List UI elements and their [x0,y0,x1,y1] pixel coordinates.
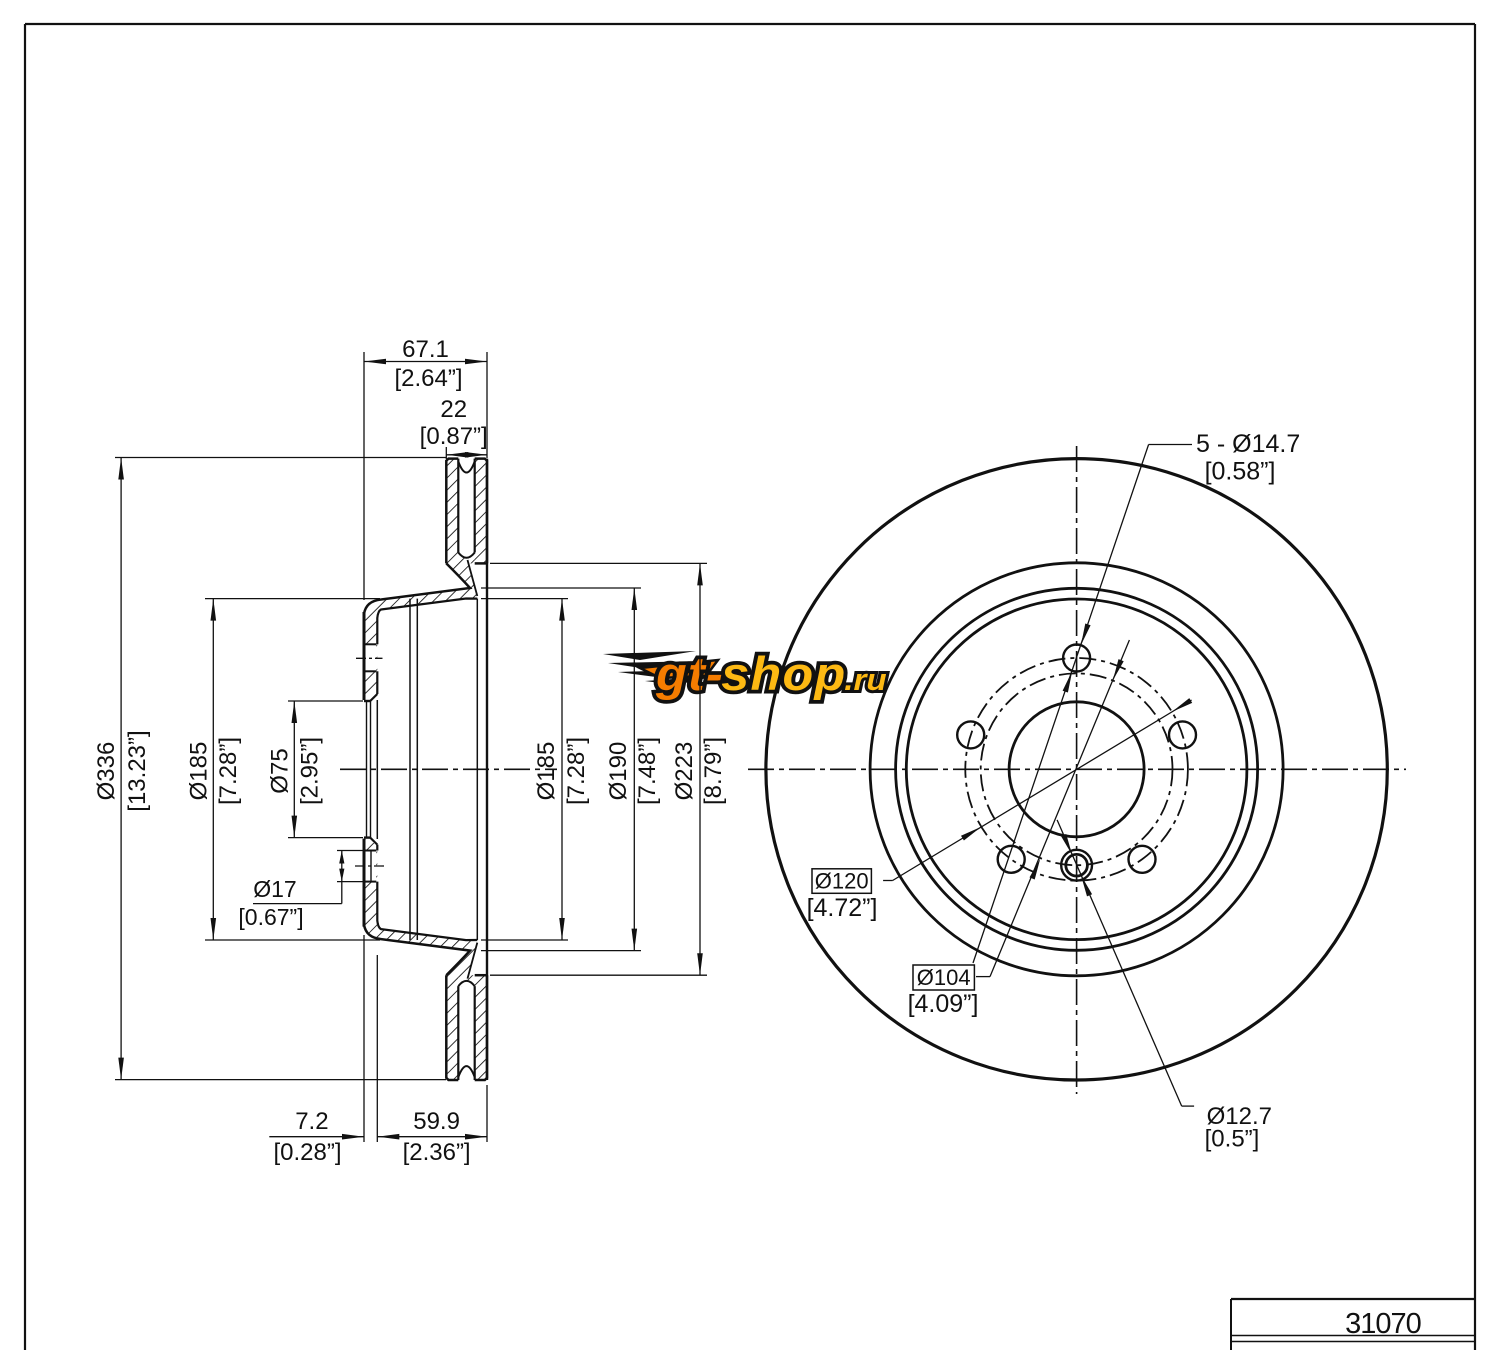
dim D223 [490,562,707,564]
bolt hole window in flange (section) [366,644,377,671]
section outline: lower left plate [446,975,458,1080]
dim D336 [115,457,446,459]
svg-text:Ø223: Ø223 [671,742,698,801]
hat inner circle D185 [906,599,1247,940]
D12.7 dimension line [1057,820,1182,1106]
watermark gt-shop.ru logo [603,648,887,700]
svg-text:[0.5”]: [0.5”] [1205,1126,1260,1153]
hat wall inner line (lower) [377,882,477,941]
dim D75 [288,700,363,702]
bolt hole 5 (D14.7) [957,721,984,748]
title block [1231,1298,1475,1300]
section outline: right plate [475,459,487,564]
D120 boxed label [812,869,871,894]
front view: vertical centerline [1076,446,1078,1094]
flange inner face thin line across bore [376,700,378,839]
svg-text:5 - Ø14.7: 5 - Ø14.7 [1196,430,1300,458]
dim D190 [481,587,641,589]
svg-text:Ø185: Ø185 [186,742,213,801]
svg-text:59.9: 59.9 [413,1108,460,1135]
pot mouth rim circle [476,599,478,940]
svg-text:[4.09”]: [4.09”] [908,990,979,1018]
section horizontal centerline [340,768,557,770]
svg-text:[7.28”]: [7.28”] [215,737,242,805]
svg-text:67.1: 67.1 [402,336,449,363]
svg-text:[0.67”]: [0.67”] [238,904,303,930]
svg-text:Ø190: Ø190 [605,742,632,801]
svg-text:[2.36”]: [2.36”] [403,1139,471,1166]
section outline: left plate [446,459,458,564]
label 5-D14.7 leader [1149,444,1192,446]
D104 dimension line [976,976,990,978]
svg-text:Ø17: Ø17 [253,876,296,902]
lower vane U and slot U [458,1066,474,1077]
section: hatched left plate (outboard) [446,459,458,564]
svg-text:22: 22 [440,396,467,423]
bolt hole 2 (D14.7) [1169,721,1196,748]
hat outer circle [896,588,1258,950]
svg-text:Ø120: Ø120 [815,869,869,894]
svg-text:.ru: .ru [844,662,887,697]
bolt circle D120 (dash-dot) [965,658,1188,881]
flange inner face middle segments [376,671,378,694]
bolt hole window edges (section) [364,643,376,645]
svg-text:Ø336: Ø336 [93,742,120,801]
D17 screw hole window in flange (section) [366,851,377,882]
svg-text:[4.72”]: [4.72”] [807,894,878,922]
friction band inner circle D223 [870,563,1283,976]
section outline: lower right plate [475,975,487,1080]
front view: horizontal centerline [748,768,1406,770]
step D223 (upper) [475,562,487,565]
svg-text:31070: 31070 [1345,1308,1421,1340]
bore walls D75 [364,700,370,702]
section: hatched cone+hat wall upper [364,558,477,700]
bolt hole centerline (section) [356,657,383,659]
D17 hole centerline (section) [355,865,384,867]
svg-text:[2.64”]: [2.64”] [394,365,462,392]
pot interior step circles [409,599,411,940]
svg-text:Ø185: Ø185 [533,742,560,801]
hat wall inner line (upper) [377,599,477,645]
svg-text:[0.87”]: [0.87”] [420,423,488,450]
svg-text:Ø75: Ø75 [267,748,294,793]
svg-text:[0.28”]: [0.28”] [273,1139,341,1166]
section: hatched lower left plate [446,975,458,1080]
svg-text:[2.95”]: [2.95”] [297,737,324,805]
D120 PCD dimension line [883,880,893,882]
flange mounting face thick line [363,612,366,700]
drawing frame border [25,23,1475,25]
svg-text:[0.58”]: [0.58”] [1205,458,1276,486]
outboard face plane full height [486,459,488,1080]
bolt hole 1 (D14.7) [1063,645,1090,672]
dim D185 right [481,598,568,600]
D17 window edges (section) [364,850,376,852]
cone inner edge (slot to pot rim) [468,560,478,596]
cone outer + hat wall outer + flange face (lower) [364,840,470,976]
dim 67.1 [363,352,365,600]
D104 boxed label [913,965,974,990]
dim D185 left [205,598,380,600]
cone outer + hat wall outer + flange face (upper) [364,563,470,699]
svg-text:7.2: 7.2 [295,1108,328,1135]
section: hatched lower right plate [475,975,487,1080]
slot bottom U [458,553,474,558]
svg-text:[7.28”]: [7.28”] [563,737,590,805]
bolt hole 3 (D14.7) [1129,846,1156,873]
dim D17 [337,850,363,852]
svg-text:[7.48”]: [7.48”] [634,737,661,805]
section: hatched right plate [475,459,487,564]
hub bore circle D75 [1009,702,1144,837]
section: hatched cone+hat wall lower [364,839,477,981]
bore chamfer circles seen through bore [366,701,368,838]
screw hole position circle D104 (dash-dot) [981,673,1173,865]
svg-text:gt-: gt- [655,648,724,700]
disc outer circle D336 [766,459,1387,1080]
set screw hole D12.7 with D17 counterbore [1061,850,1092,881]
dim 22 [445,447,447,459]
svg-text:shop: shop [721,648,846,700]
bolt hole 4 (D14.7) [998,846,1025,873]
dim 7.2 / 59.9 [363,935,365,1142]
vane edge U-curve near OD [458,462,474,473]
step D223 (lower) [475,974,487,977]
svg-text:[13.23”]: [13.23”] [124,730,151,811]
svg-text:[8.79”]: [8.79”] [700,737,727,805]
svg-text:Ø104: Ø104 [917,965,971,990]
